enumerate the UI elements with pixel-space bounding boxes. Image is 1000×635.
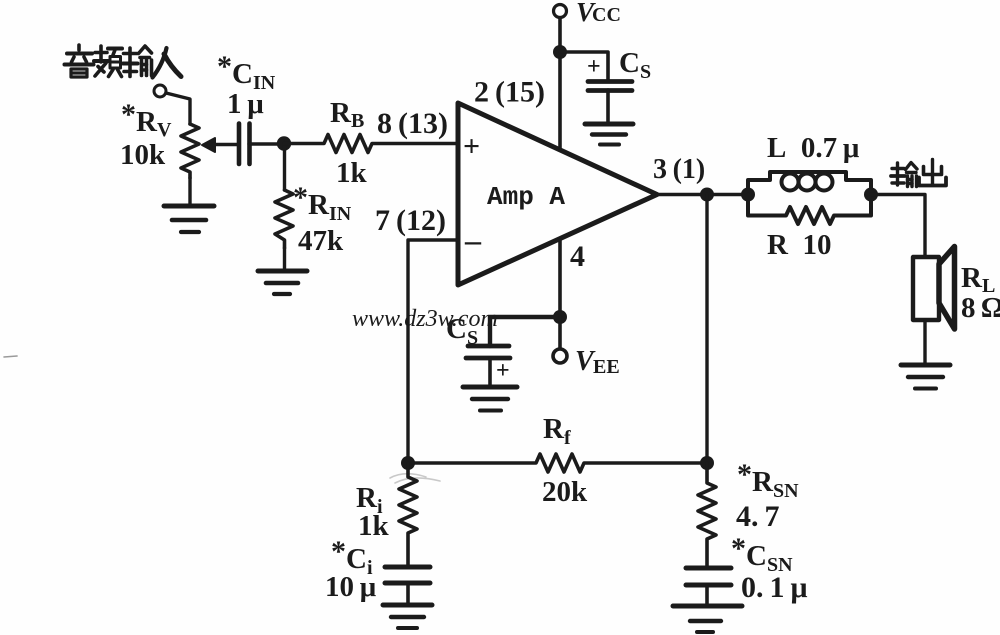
svg-text:10k: 10k <box>120 139 166 171</box>
svg-text:+: + <box>496 358 510 384</box>
svg-text:Rf: Rf <box>543 413 571 449</box>
node L/R right <box>864 188 878 202</box>
wire junction to CS bottom <box>490 317 560 346</box>
speaker RL box <box>913 257 939 320</box>
wire VEE node down to terminal <box>558 317 562 349</box>
svg-text:8 (13): 8 (13) <box>377 107 448 140</box>
svg-text:*RV: *RV <box>121 98 172 141</box>
wire pin7 from - input left and down to feedback node <box>408 240 458 463</box>
potentiometer wiper arrow <box>202 138 215 152</box>
svg-text:+: + <box>463 130 480 163</box>
node junction output <box>700 188 714 202</box>
wire op-amp output to L/R network <box>657 193 748 197</box>
svg-text:Amp A: Amp A <box>487 182 565 212</box>
svg-text:4: 4 <box>570 240 585 273</box>
capacitor CS top plates <box>588 82 632 124</box>
wire output node down to feedback node <box>705 195 708 464</box>
svg-text:20k: 20k <box>542 476 588 508</box>
capacitor Ci plates <box>385 567 430 604</box>
VEE terminal <box>553 349 567 363</box>
svg-text:EE: EE <box>593 356 620 378</box>
wire pin4 down to VEE node <box>558 239 562 317</box>
svg-text:L 0.7 μ: L 0.7 μ <box>767 132 860 164</box>
svg-text:www.dz3w.com: www.dz3w.com <box>352 306 498 332</box>
wire speaker to ground <box>923 320 926 364</box>
svg-text:R 10: R 10 <box>767 229 831 261</box>
ground under Ci <box>383 605 432 628</box>
svg-text:CC: CC <box>592 4 621 26</box>
resistor RIN zigzag <box>275 190 293 248</box>
capacitor CIN <box>239 124 284 165</box>
feedback wire Rf row <box>408 454 707 472</box>
node junction VCC/CS <box>553 45 567 59</box>
svg-text:8 Ω: 8 Ω <box>961 292 1000 324</box>
svg-text:7 (12): 7 (12) <box>375 204 446 237</box>
svg-text:RB: RB <box>330 97 364 132</box>
input terminal <box>154 85 166 97</box>
svg-text:47k: 47k <box>298 225 344 257</box>
wire junction to CS top <box>560 52 608 81</box>
node junction Ri/Rf <box>401 456 415 470</box>
svg-text:+: + <box>587 54 601 80</box>
svg-text:2 (15): 2 (15) <box>474 76 545 109</box>
resistor R bottom branch zigzag <box>748 195 871 225</box>
wire to output terminal <box>871 195 925 259</box>
ground under CS bottom <box>463 387 517 411</box>
wire VCC down to pin2 <box>558 18 562 150</box>
svg-text:*CSN: *CSN <box>731 532 793 576</box>
label 输出 (output), hand-drawn glyphs <box>891 160 946 187</box>
svg-text:1 μ: 1 μ <box>227 88 264 120</box>
wire input to potentiometer <box>166 93 190 124</box>
capacitor CS bottom plates <box>466 346 510 386</box>
ground under speaker <box>901 365 950 389</box>
svg-text:–: – <box>464 222 482 258</box>
inductor L top branch <box>748 172 871 195</box>
node L/R left <box>741 188 755 202</box>
svg-text:4. 7: 4. 7 <box>736 500 780 533</box>
op-amp Amp A triangle <box>458 103 657 285</box>
svg-text:CS: CS <box>619 47 651 83</box>
node junction at input of RB <box>277 136 291 150</box>
ground under CSN <box>673 606 742 632</box>
ground under RV <box>164 178 214 232</box>
svg-text:*RSN: *RSN <box>737 458 799 502</box>
ground under CS top <box>585 124 633 145</box>
stray smudge above Ri <box>390 474 440 483</box>
speaker RL cone <box>939 247 955 330</box>
wire junction down to RIN <box>283 143 286 191</box>
svg-text:10 μ: 10 μ <box>325 571 377 603</box>
label 音频输入 (audio input), hand-drawn glyphs <box>65 45 182 78</box>
svg-text:1k: 1k <box>336 157 368 189</box>
svg-text:0. 1 μ: 0. 1 μ <box>741 571 808 604</box>
node junction Rf/RSN <box>700 456 714 470</box>
ground under RIN <box>258 248 307 294</box>
capacitor CSN plates <box>686 568 731 605</box>
resistor RB zigzag <box>284 135 458 153</box>
potentiometer RV zigzag <box>181 124 199 178</box>
svg-text:1k: 1k <box>358 510 390 542</box>
node junction pin4/CS bottom <box>553 310 567 324</box>
svg-text:3 (1): 3 (1) <box>653 154 705 185</box>
VCC terminal <box>554 5 567 18</box>
resistor RSN zigzag <box>698 463 716 568</box>
stray mark left edge <box>4 356 17 357</box>
resistor Ri zigzag <box>399 463 417 567</box>
